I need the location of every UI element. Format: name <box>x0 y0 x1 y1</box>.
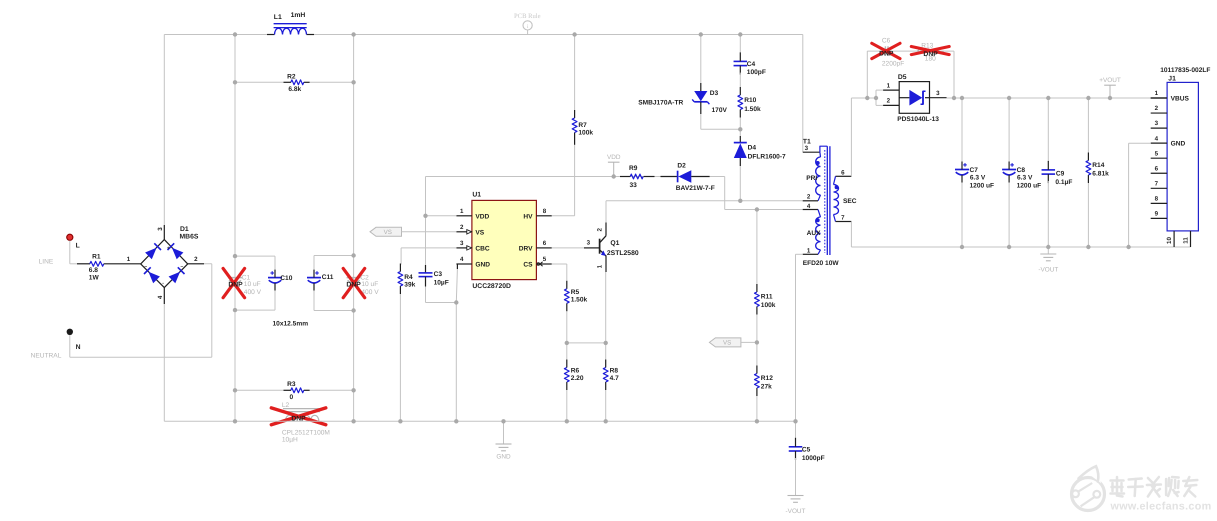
svg-text:SMBJ170A-TR: SMBJ170A-TR <box>638 99 683 106</box>
svg-text:HV: HV <box>523 213 533 220</box>
svg-text:C6: C6 <box>882 38 891 45</box>
svg-text:2.20: 2.20 <box>571 375 584 382</box>
svg-text:-VOUT: -VOUT <box>1038 267 1058 274</box>
svg-text:VS: VS <box>384 229 392 236</box>
svg-text:2: 2 <box>460 224 464 231</box>
svg-text:DNP: DNP <box>228 281 243 288</box>
svg-text:C7: C7 <box>970 167 979 174</box>
svg-text:6: 6 <box>841 169 845 176</box>
svg-text:100k: 100k <box>761 302 776 309</box>
svg-text:D3: D3 <box>710 90 719 97</box>
svg-text:N: N <box>76 344 81 351</box>
svg-text:L1: L1 <box>274 14 282 21</box>
svg-text:1000pF: 1000pF <box>802 455 825 462</box>
svg-text:CPL2512T100M: CPL2512T100M <box>282 429 330 436</box>
svg-text:10µF: 10µF <box>434 279 449 286</box>
svg-text:10 uF: 10 uF <box>244 281 261 288</box>
svg-text:2STL2580: 2STL2580 <box>607 250 639 257</box>
svg-text:1: 1 <box>887 82 891 89</box>
svg-text:NEUTRAL: NEUTRAL <box>31 352 62 359</box>
svg-text:7: 7 <box>841 215 845 222</box>
svg-text:CS: CS <box>523 262 533 269</box>
svg-text:VS: VS <box>723 340 731 347</box>
svg-text:GND: GND <box>496 454 511 461</box>
svg-text:D2: D2 <box>677 163 686 170</box>
svg-text:VDD: VDD <box>475 213 489 220</box>
svg-text:170V: 170V <box>712 107 728 114</box>
svg-text:R10: R10 <box>744 97 756 104</box>
svg-text:J1: J1 <box>1168 75 1176 82</box>
svg-text:5: 5 <box>543 256 547 263</box>
svg-text:VBUS: VBUS <box>1171 96 1190 103</box>
svg-text:3: 3 <box>587 240 591 247</box>
svg-text:R9: R9 <box>629 165 638 172</box>
svg-text:GND: GND <box>1171 141 1186 148</box>
svg-text:6: 6 <box>1155 165 1159 172</box>
svg-text:VDD: VDD <box>607 154 621 161</box>
svg-text:6.8: 6.8 <box>89 267 98 274</box>
svg-text:PRI: PRI <box>806 175 817 182</box>
svg-text:400 V: 400 V <box>244 289 262 296</box>
svg-text:10117835-002LF: 10117835-002LF <box>1160 67 1210 74</box>
svg-text:D5: D5 <box>898 74 907 81</box>
svg-text:39k: 39k <box>404 282 415 289</box>
svg-text:C10: C10 <box>280 275 292 282</box>
svg-text:R11: R11 <box>761 294 773 301</box>
svg-text:1200 uF: 1200 uF <box>970 182 995 189</box>
svg-text:R5: R5 <box>571 289 580 296</box>
svg-text:C3: C3 <box>434 271 443 278</box>
svg-text:~: ~ <box>180 264 183 270</box>
svg-text:27k: 27k <box>761 384 772 391</box>
svg-text:9: 9 <box>1155 211 1159 218</box>
svg-text:R12: R12 <box>761 375 773 382</box>
svg-text:R3: R3 <box>287 381 296 388</box>
svg-text:10 uF: 10 uF <box>361 281 378 288</box>
svg-text:4: 4 <box>1155 135 1159 142</box>
svg-text:R6: R6 <box>571 368 580 375</box>
svg-text:R4: R4 <box>404 274 413 281</box>
svg-text:1: 1 <box>807 247 811 254</box>
svg-text:DNP: DNP <box>879 51 894 58</box>
svg-text:AUX: AUX <box>807 230 822 237</box>
svg-text:6.8k: 6.8k <box>288 86 301 93</box>
svg-text:DNP: DNP <box>923 51 938 58</box>
svg-text:MB6S: MB6S <box>180 234 199 241</box>
svg-text:DRV: DRV <box>519 245 533 252</box>
svg-text:11: 11 <box>1182 237 1189 244</box>
svg-text:R1: R1 <box>92 254 101 261</box>
svg-text:www.elecfans.com: www.elecfans.com <box>1110 501 1212 513</box>
svg-text:LINE: LINE <box>39 259 54 266</box>
svg-text:100pF: 100pF <box>747 69 766 76</box>
svg-text:100k: 100k <box>578 130 593 137</box>
svg-text:-VOUT: -VOUT <box>786 508 806 515</box>
svg-text:8: 8 <box>543 208 547 215</box>
svg-text:BAV21W-7-F: BAV21W-7-F <box>676 185 715 192</box>
svg-text:D4: D4 <box>748 145 757 152</box>
svg-text:1W: 1W <box>89 275 100 282</box>
svg-text:CBC: CBC <box>475 245 490 252</box>
svg-text:1: 1 <box>1155 90 1159 97</box>
svg-text:C5: C5 <box>802 446 811 453</box>
svg-text:1: 1 <box>460 208 464 215</box>
svg-text:3: 3 <box>1155 120 1159 127</box>
svg-text:3: 3 <box>157 227 164 231</box>
svg-text:10x12.5mm: 10x12.5mm <box>273 320 309 327</box>
svg-text:+: + <box>167 245 170 251</box>
svg-text:D1: D1 <box>180 226 189 233</box>
svg-text:2: 2 <box>887 98 891 105</box>
svg-text:3: 3 <box>936 90 940 97</box>
svg-text:6.81k: 6.81k <box>1092 171 1109 178</box>
svg-text:C8: C8 <box>1017 167 1026 174</box>
svg-text:10µH: 10µH <box>282 437 298 444</box>
svg-text:+VOUT: +VOUT <box>1099 77 1121 84</box>
svg-text:R2: R2 <box>287 73 296 80</box>
svg-text:1.50k: 1.50k <box>571 297 588 304</box>
svg-text:EFD20 10W: EFD20 10W <box>803 260 840 267</box>
svg-text:L: L <box>76 243 80 250</box>
svg-text:1.50k: 1.50k <box>744 106 761 113</box>
svg-text:U1: U1 <box>472 192 481 199</box>
svg-text:6.3 V: 6.3 V <box>1017 175 1033 182</box>
svg-text:1200 uF: 1200 uF <box>1017 182 1042 189</box>
svg-text:3: 3 <box>805 145 809 152</box>
svg-text:4: 4 <box>807 203 811 210</box>
svg-text:DNP: DNP <box>346 281 361 288</box>
svg-text:4: 4 <box>460 256 464 263</box>
svg-text:R14: R14 <box>1092 162 1104 169</box>
svg-text:3: 3 <box>460 240 464 247</box>
svg-text:6: 6 <box>543 240 547 247</box>
svg-text:DFLR1600-7: DFLR1600-7 <box>748 153 786 160</box>
svg-text:5: 5 <box>1155 150 1159 157</box>
svg-text:C11: C11 <box>322 274 334 281</box>
svg-text:Q1: Q1 <box>610 240 619 247</box>
svg-text:2: 2 <box>596 227 603 231</box>
svg-text:4.7: 4.7 <box>610 375 619 382</box>
svg-text:8: 8 <box>1155 195 1159 202</box>
svg-text:7: 7 <box>1155 180 1159 187</box>
svg-text:2: 2 <box>807 194 811 201</box>
svg-text:VS: VS <box>475 229 484 236</box>
svg-text:UCC28720D: UCC28720D <box>472 283 511 290</box>
svg-text:0: 0 <box>289 394 293 401</box>
svg-text:C4: C4 <box>747 61 756 68</box>
svg-text:R8: R8 <box>610 368 619 375</box>
svg-text:10: 10 <box>1166 237 1173 244</box>
svg-text:2200pF: 2200pF <box>882 60 904 67</box>
svg-text:1: 1 <box>596 264 603 268</box>
svg-text:C9: C9 <box>1056 171 1065 178</box>
svg-text:L2: L2 <box>282 402 290 409</box>
svg-text:4: 4 <box>157 295 164 299</box>
svg-text:2: 2 <box>194 256 198 263</box>
svg-text:PDS1040L-13: PDS1040L-13 <box>897 116 939 123</box>
svg-text:1: 1 <box>127 256 131 263</box>
svg-text:6.3 V: 6.3 V <box>970 175 986 182</box>
svg-text:~: ~ <box>144 264 147 270</box>
svg-text:33: 33 <box>630 182 638 189</box>
svg-text:SEC: SEC <box>843 198 857 205</box>
svg-text:GND: GND <box>475 262 490 269</box>
svg-text:2: 2 <box>1155 105 1159 112</box>
svg-text:0.1µF: 0.1µF <box>1055 179 1072 186</box>
svg-text:PCB Rule: PCB Rule <box>514 13 541 20</box>
svg-text:1mH: 1mH <box>291 12 306 19</box>
svg-text:R7: R7 <box>578 122 587 129</box>
